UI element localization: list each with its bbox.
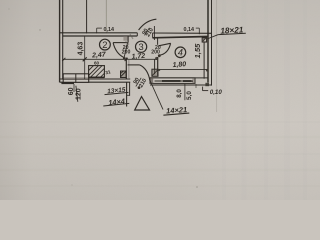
partition 2/3 lower second line [128,60,130,78]
svg-text:8,0: 8,0 [176,89,183,98]
wall left inner line [62,0,64,80]
wall right inner line [207,0,209,83]
door D2 swing curve [113,43,124,58]
bracket 0,14 left [97,28,102,33]
svg-text:14×21: 14×21 [166,105,188,115]
room circle 4 [175,47,186,58]
svg-text:1,72: 1,72 [131,53,145,61]
level mark bracket 0,10 [203,87,209,91]
svg-text:14×4: 14×4 [108,97,126,108]
svg-text:5,0: 5,0 [186,91,193,100]
partition 2/3 lower line [125,58,127,79]
entrance fraction slash [136,78,141,87]
svg-text:0,14: 0,14 [104,27,115,33]
svg-text:18×21: 18×21 [220,25,244,35]
chimney leader line [207,35,218,39]
wall right outer line [211,0,213,86]
svg-text:2,47: 2,47 [91,51,107,59]
svg-text:60: 60 [68,87,75,95]
top door jamb tick [153,26,155,40]
door D2 hinge dot [123,57,126,60]
bottom wall left bottom line [60,81,131,83]
dim line 2,47 horizontal [63,58,157,60]
right window fraction bar [184,84,186,100]
wall left outer line [59,0,61,82]
junction blob partition top [155,57,158,60]
top wall right segment top line [153,32,212,34]
entrance door dot [138,86,141,89]
svg-text:4: 4 [178,47,183,58]
partition 3/4 line a [154,60,156,75]
bottom wall right top line [150,77,208,79]
pier hatch small box partition 3/4 [152,69,158,76]
bottom wall left top line [60,78,131,80]
door D4 leaf top edge [159,43,171,46]
flue wall line x=204 [203,42,205,78]
svg-text:3: 3 [138,41,143,52]
top door fraction slash [145,28,150,36]
label 14x21 underline [163,113,189,115]
svg-text:120: 120 [76,88,83,100]
dim 1,80 left end blob [158,69,160,71]
corner blob bottom right [205,83,209,86]
dim line 4,63 vertical [84,37,86,80]
svg-text:60: 60 [94,61,100,66]
top wall left segment [60,33,138,36]
label 18x21 underline [218,33,246,34]
partition 2/3 head dark line [127,36,129,42]
partition 2/3 head gray bar [123,36,127,40]
svg-text:200: 200 [151,49,160,55]
svg-text:4,63: 4,63 [77,42,84,56]
room circle 3 [136,41,147,52]
top wall right segment left cap [152,33,154,38]
chimney box 18x21 [202,38,206,42]
label 13x15 underline [105,92,129,94]
door D2 leaf top edge [113,42,128,44]
entrance door swing arc [140,65,150,81]
dim line 1,80 [159,69,208,71]
paper grain [0,0,1,1]
dim tick 2,47 left end [62,58,65,61]
dim 1,80 right end blob [206,69,209,72]
pier hatch small box partition 2/3 [121,71,127,78]
masonry pier hatch box 60 [89,66,105,78]
partition 3/4 jamb tick above door [157,38,159,45]
door D4 hinge dot [158,54,161,57]
dim tick 2,47 right end [125,58,128,61]
pencil smudge near top door [126,34,134,45]
svg-text:1,80: 1,80 [172,61,186,69]
bottom wall right outer line [150,84,212,86]
top door swing arc [139,19,157,30]
partition 3/4 line b [157,57,159,76]
bracket 0,14 right [196,28,200,34]
door D4 swing curve [160,43,171,55]
leader line to 14x21 [150,81,163,110]
sheet edge faint line [216,0,218,112]
svg-text:1,55: 1,55 [193,43,202,58]
top wall right segment bottom thick line [153,37,208,38]
svg-text:2: 2 [102,39,107,50]
door D2 right edge [124,43,127,58]
window W1 left [61,74,88,92]
faint wall stub upper x=106 [105,0,107,33]
entrance door leaf line [128,64,140,66]
svg-text:0,14: 0,14 [184,27,195,33]
bottom scan striations [0,122,320,186]
wall stub upper x=86 [86,0,88,33]
window W2 right end tick [195,84,197,88]
paper specks [8,8,197,187]
left window fraction bar [76,86,78,102]
paper streaks right strip [224,0,305,200]
window W2 right [150,78,195,84]
svg-text:0,10: 0,10 [210,89,223,96]
label 14x4 underline [103,103,129,106]
room circle 2 [100,39,111,50]
entrance jamb tick [127,94,130,96]
svg-text:200: 200 [122,50,131,56]
vent triangle [135,97,150,110]
dim tick at 2,47 x 4,63 [83,57,87,61]
entrance jamb line short [129,82,131,96]
entrance jamb line long [126,82,128,106]
